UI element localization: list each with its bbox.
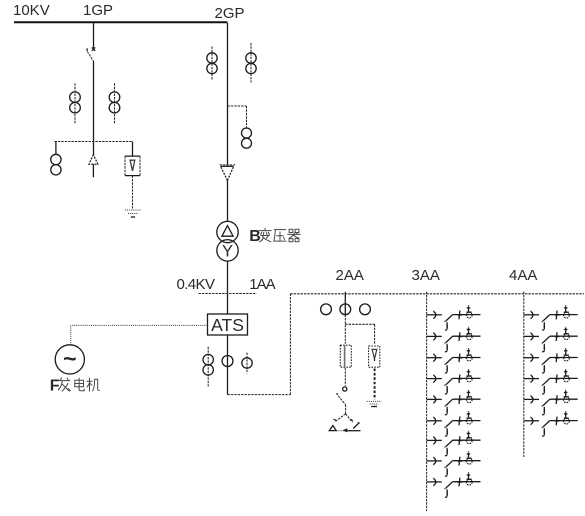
wire 4AA riser (dashed) <box>523 292 525 457</box>
wire arrester 2AA to ground (bold dashed) <box>374 369 376 400</box>
bus 10KV <box>14 21 228 23</box>
feeder branch 3AA-1 <box>427 305 481 330</box>
feeder branch 3AA-8 <box>427 451 481 476</box>
svg-text:1GP: 1GP <box>83 2 113 19</box>
CT left 2AA <box>321 304 332 315</box>
svg-text:3AA: 3AA <box>412 267 440 284</box>
wire arrester to ground <box>132 176 134 209</box>
transformer B primary winding (delta) <box>217 221 238 242</box>
voltage transformer PT3 (two windings) <box>51 154 61 175</box>
label B变压器 <box>249 228 300 245</box>
wire 2AA to fuse (dashed) <box>344 315 346 344</box>
wire right drop to arrester <box>132 142 134 157</box>
wire 1GP drop <box>93 23 95 48</box>
svg-text:2AA: 2AA <box>336 267 364 284</box>
svg-text:4AA: 4AA <box>509 267 537 284</box>
circuit breaker 1GP (x contact + blade) <box>87 47 95 61</box>
feeder branch 4AA-5 <box>524 390 578 415</box>
voltage transformer PT5 (right of 2GP) <box>246 43 256 83</box>
transformer B secondary winding (Y) <box>217 240 238 261</box>
fuse FU (rectangle with line) <box>340 345 351 367</box>
feeder branch 4AA-6 <box>524 411 578 436</box>
changeover switch 2AA (pivot, blade, arrows) <box>329 387 360 433</box>
voltage transformer PT7 (left under ATS) <box>203 347 213 387</box>
svg-text:~: ~ <box>63 346 76 372</box>
svg-text:1AA: 1AA <box>249 276 275 293</box>
feeder branch 4AA-4 <box>524 369 578 394</box>
feeder branch 4AA-1 <box>524 305 578 330</box>
wire fuse to changeover switch <box>344 368 346 386</box>
svg-text:F: F <box>50 377 60 394</box>
wire 3AA riser (dashed) <box>426 292 428 511</box>
wire 1GP to cable head <box>93 61 95 154</box>
feeder branch 3AA-2 <box>427 327 481 352</box>
feeder branch 4AA-3 <box>524 348 578 373</box>
feeder branch 3AA-9 <box>427 472 481 497</box>
wire 2GP drop <box>227 23 229 166</box>
CT middle 2AA (on line) <box>340 304 351 315</box>
feeder branch 4AA-2 <box>524 327 578 352</box>
cable head terminal 1GP (up triangle) <box>89 155 98 178</box>
wire generator to ATS (dotted) <box>71 325 208 344</box>
wire branch to PT6 <box>228 106 247 128</box>
wire transformer to ATS <box>227 261 229 314</box>
CT right under ATS <box>242 353 252 374</box>
wire branch to arrester 2AA (dashed) <box>345 324 374 344</box>
feeder branch 3AA-6 <box>427 411 481 436</box>
wire ATS output to right riser (dashed) <box>228 394 291 396</box>
svg-text:0.4KV: 0.4KV <box>177 276 215 293</box>
surge arrester F1 (box with down arrow) <box>125 156 140 176</box>
voltage transformer PT4 (left of 2GP) <box>207 47 217 81</box>
svg-text:ATS: ATS <box>211 315 244 335</box>
feeder branch 3AA-3 <box>427 348 481 373</box>
bus 0.4KV distribution (dashed) <box>290 293 584 295</box>
CT middle under ATS (circle on line) <box>222 356 233 367</box>
voltage transformer PT2 (right of 1GP line) <box>109 83 120 123</box>
wire ATS output down <box>227 335 229 395</box>
surge arrester F2 (box with down arrow) <box>369 346 380 367</box>
feeder branch 3AA-4 <box>427 369 481 394</box>
wire dashed crossbar 1GP cubicle <box>55 141 133 143</box>
CT right 2AA <box>360 304 371 315</box>
svg-text:2GP: 2GP <box>215 5 245 22</box>
feeder branch 3AA-7 <box>427 431 481 456</box>
feeder branch 3AA-5 <box>427 390 481 415</box>
wire 2GP to transformer <box>227 180 229 221</box>
svg-text:10KV: 10KV <box>13 2 50 19</box>
wire right riser (dashed) <box>289 294 291 395</box>
voltage transformer PT6 (two windings) <box>242 128 252 148</box>
bus 0.4KV section 1AA (dashed) <box>199 293 257 295</box>
svg-text:Y: Y <box>222 242 233 260</box>
ground (2AA arrester) <box>367 401 382 406</box>
wire left drop to PT3 <box>55 142 57 155</box>
ground (1GP arrester) <box>125 210 141 217</box>
cable head terminal 2GP (down triangle) <box>220 165 236 181</box>
generator F (circle with ~) <box>55 345 84 374</box>
voltage transformer PT1 (left of 1GP line) <box>70 83 81 123</box>
label F发电机 <box>50 377 100 394</box>
wire 2AA drop <box>344 292 346 304</box>
ATS box <box>208 314 248 335</box>
